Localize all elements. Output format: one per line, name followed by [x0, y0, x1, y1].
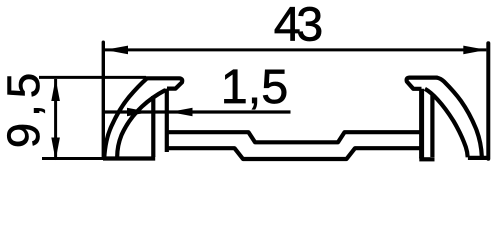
strip top edge with channel	[167, 132, 420, 142]
left foot bottom	[103, 156, 155, 160]
svg-text:9,5: 9,5	[0, 67, 49, 148]
right slot wall A'	[430, 95, 434, 157]
right hook outer curve	[437, 78, 482, 157]
arrowhead top of 9,5	[51, 78, 60, 101]
arrowhead right of 43	[463, 46, 486, 55]
right tip bottom	[468, 156, 488, 160]
extension line left (x=103)	[102, 42, 105, 157]
strip bottom edge with channel	[167, 148, 420, 159]
arrowhead 1,5 pointing right	[127, 108, 150, 116]
arrowhead 1,5 pointing left	[170, 108, 193, 116]
leader line for 1,5	[102, 110, 291, 113]
extension line right (x=487)	[486, 43, 490, 159]
svg-text:1,5: 1,5	[221, 60, 288, 114]
left hook top bar and lip	[144, 78, 182, 152]
extension line bottom for 9,5	[42, 157, 104, 160]
left hook slot wall A	[151, 96, 155, 157]
right foot bottom	[419, 157, 434, 161]
arrowhead bottom of 9,5	[51, 138, 60, 161]
right hook top bar and lip	[407, 78, 438, 89]
right hook inner curve	[425, 89, 468, 158]
svg-text:43: 43	[274, 0, 321, 51]
arrowhead left of 43	[105, 46, 128, 55]
dimension line 43	[105, 48, 487, 51]
right stem	[419, 89, 424, 159]
left hook outer curve	[104, 78, 147, 158]
profile outline	[103, 78, 488, 160]
left hook inner curve	[117, 90, 165, 158]
dimension line 9,5	[54, 79, 57, 160]
extension line top for 9,5	[39, 76, 146, 79]
